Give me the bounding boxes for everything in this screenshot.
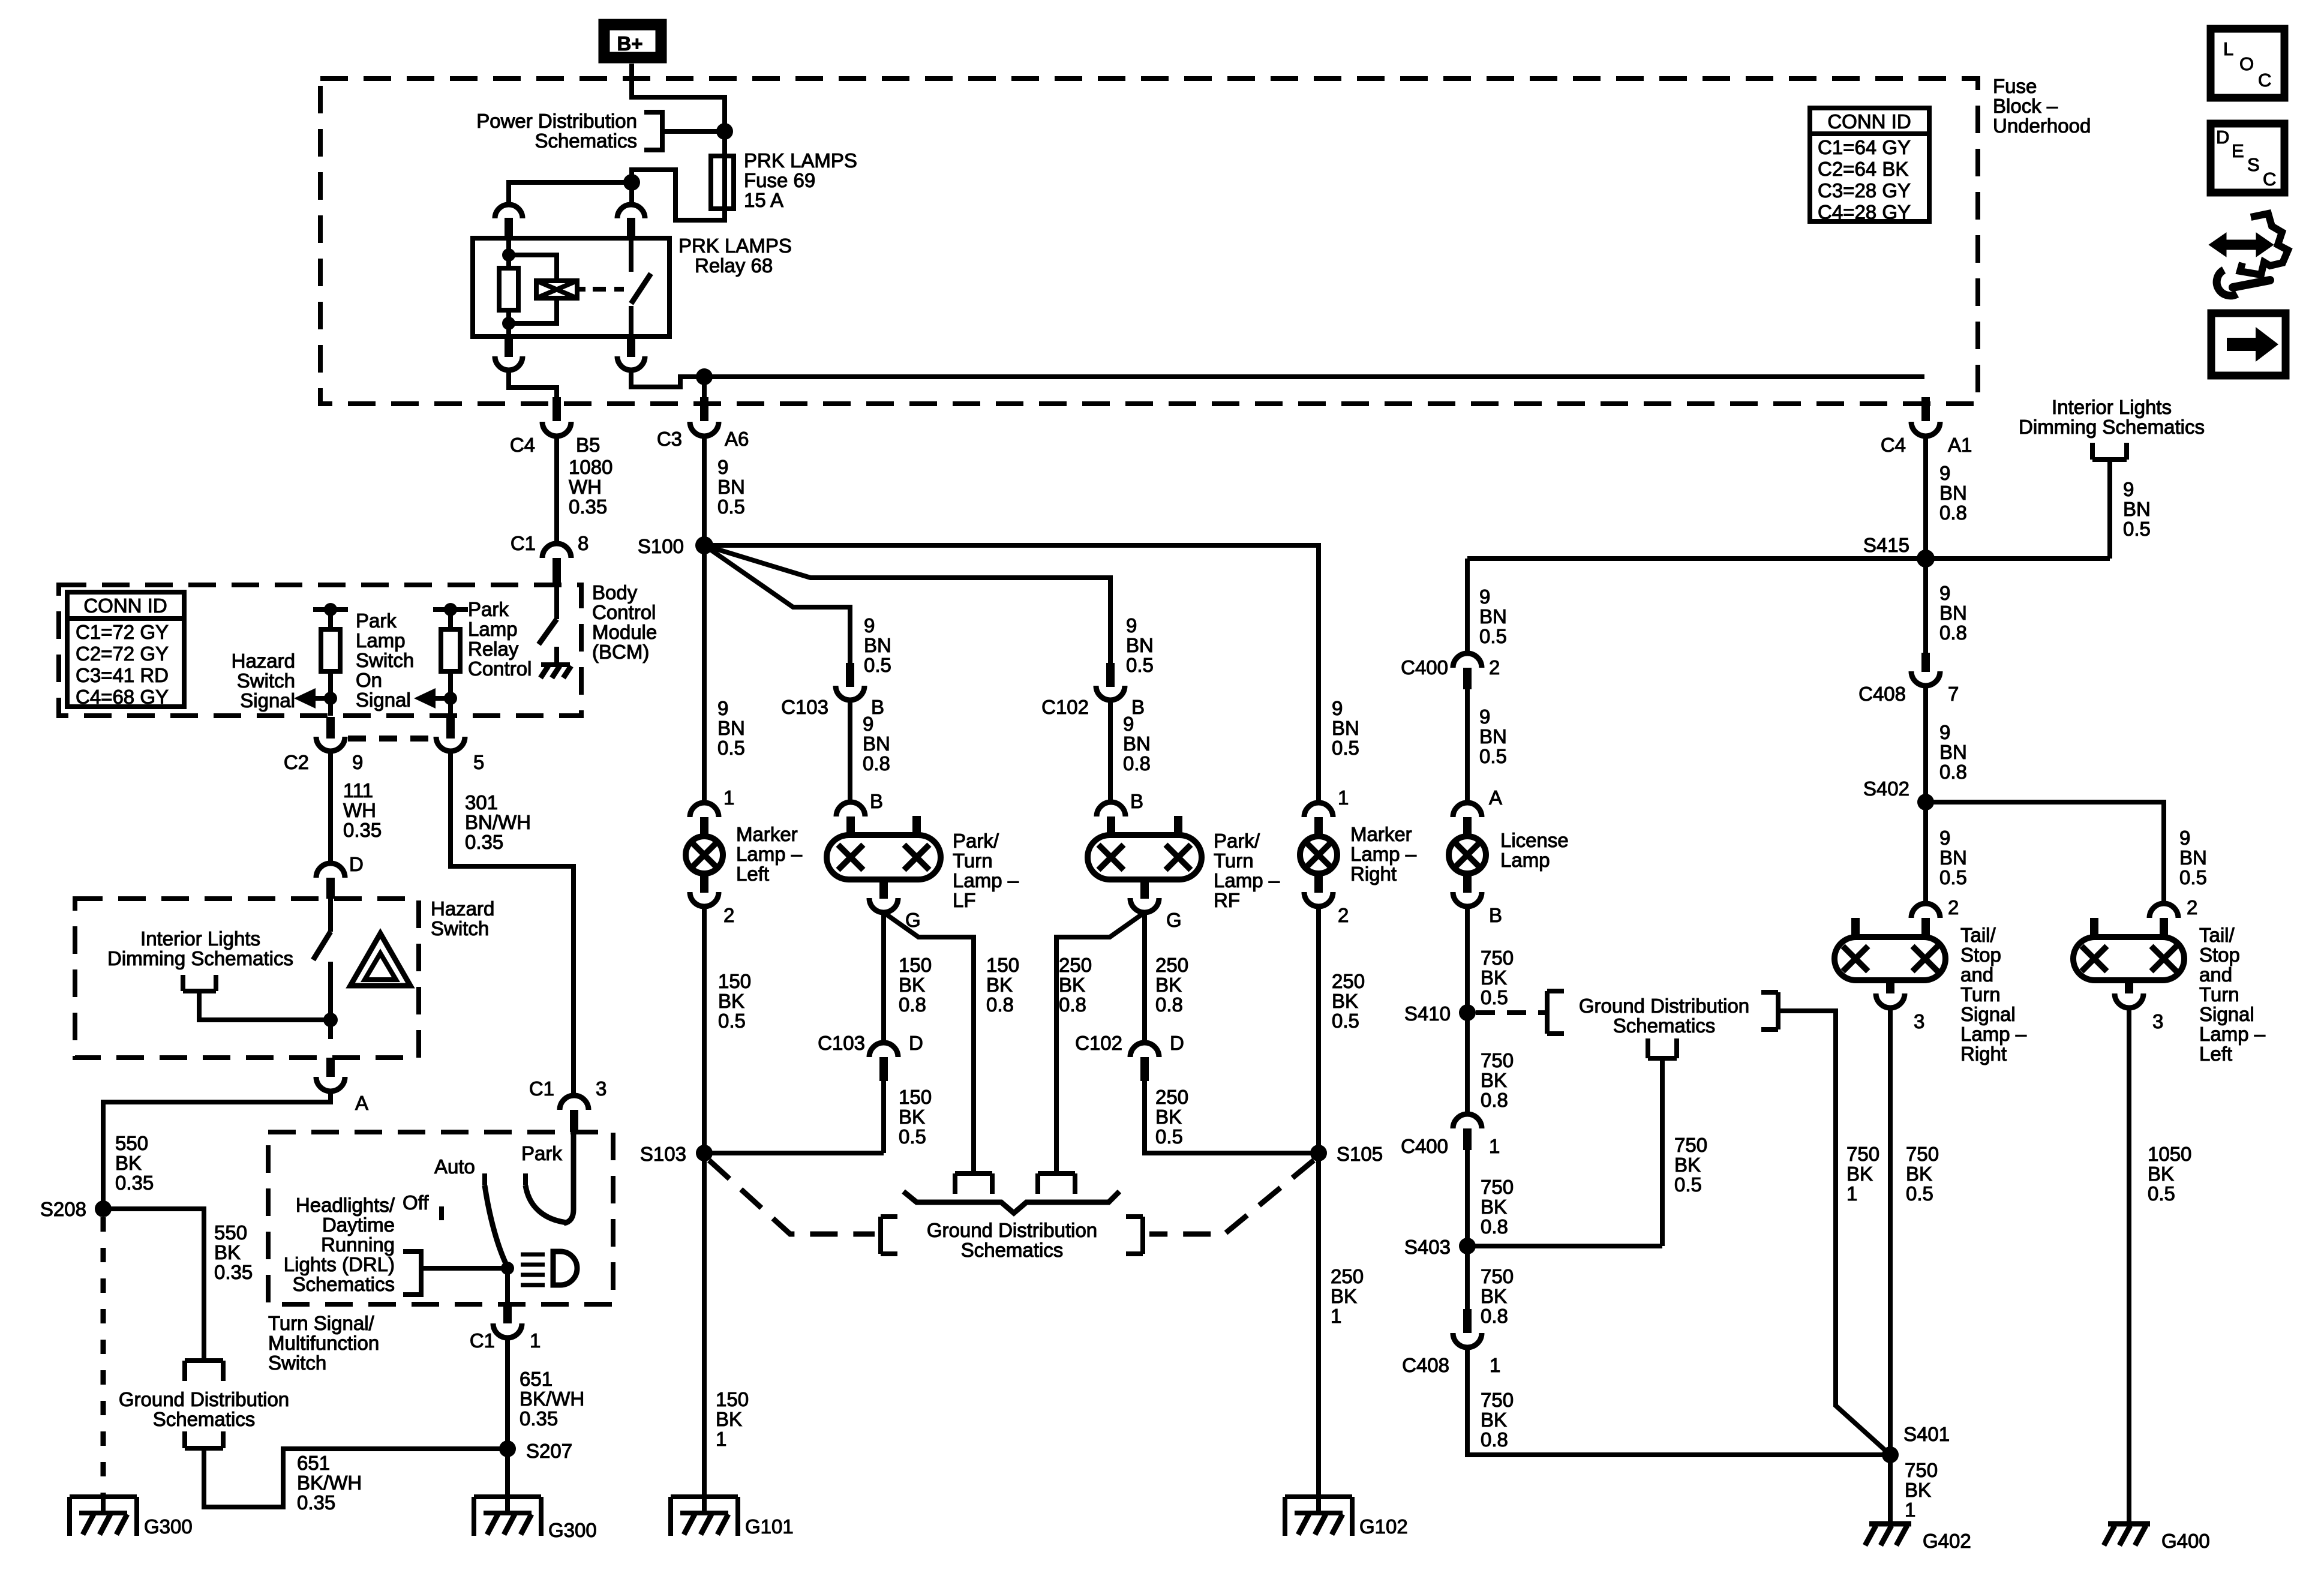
svg-text:0.5: 0.5 <box>1481 986 1508 1008</box>
wire 750 BK 0.8 to S401 <box>1467 1347 1890 1455</box>
svg-text:1: 1 <box>530 1329 541 1352</box>
svg-text:Ground Distribution: Ground Distribution <box>119 1388 289 1410</box>
node hazard signal tap <box>324 692 337 705</box>
dashed reference wire from S410 <box>1476 1010 1545 1015</box>
node S105 <box>1310 1145 1327 1161</box>
svg-text:Schematics: Schematics <box>535 130 637 152</box>
hazard switch blade wires <box>328 899 333 932</box>
wire 150 BK 1 to G101 <box>702 1153 707 1513</box>
svg-text:Schematics: Schematics <box>153 1408 256 1430</box>
svg-text:0.5: 0.5 <box>1479 745 1507 767</box>
svg-text:BK: BK <box>1481 1196 1507 1218</box>
svg-text:Park/: Park/ <box>953 830 999 852</box>
svg-text:A6: A6 <box>725 428 749 450</box>
svg-text:C1=64 GY: C1=64 GY <box>1818 136 1911 158</box>
svg-text:0.35: 0.35 <box>465 831 503 853</box>
connector C3 pin A6 (fuse block bottom) <box>700 397 708 421</box>
ground distribution terminal (input prongs) <box>185 1361 223 1381</box>
svg-text:Turn Signal/: Turn Signal/ <box>268 1312 375 1334</box>
svg-text:Lamp: Lamp <box>468 618 518 640</box>
BCM relay control switch blade <box>539 619 557 644</box>
svg-text:Module: Module <box>592 621 657 643</box>
svg-text:BN: BN <box>1126 634 1154 656</box>
wire C1/3 into park contact <box>564 1132 574 1223</box>
svg-text:750: 750 <box>1481 1176 1514 1198</box>
node S403 <box>1459 1238 1476 1254</box>
svg-text:Turn: Turn <box>2199 983 2239 1005</box>
svg-text:A: A <box>1489 786 1502 809</box>
BCM park-lamp pull-up supply bar <box>433 607 468 612</box>
svg-text:301: 301 <box>465 791 498 813</box>
svg-text:Dimming Schematics: Dimming Schematics <box>2019 416 2205 438</box>
svg-text:D: D <box>1170 1032 1184 1054</box>
connector C1 pin 3 (headlamp switch top) <box>560 1095 588 1110</box>
svg-text:BK: BK <box>716 1408 742 1430</box>
svg-text:9: 9 <box>1332 697 1343 719</box>
svg-text:0.8: 0.8 <box>1939 622 1967 644</box>
svg-text:C2: C2 <box>284 751 309 773</box>
relay switch blade <box>631 274 651 304</box>
dashed wire S208 to G300 <box>101 1217 106 1497</box>
svg-text:0.5: 0.5 <box>899 1125 926 1148</box>
svg-text:C1: C1 <box>470 1329 495 1352</box>
svg-text:C1: C1 <box>511 532 536 554</box>
svg-text:BK: BK <box>1481 1069 1507 1091</box>
dashed reference wire from S103 <box>709 1160 875 1234</box>
svg-text:G102: G102 <box>1359 1515 1408 1538</box>
svg-text:3: 3 <box>596 1077 606 1100</box>
svg-text:RF: RF <box>1214 889 1240 911</box>
off position contact <box>439 1206 444 1220</box>
wire 250 BK 1 to G102 <box>1316 1153 1321 1513</box>
svg-text:BK: BK <box>1481 1409 1507 1431</box>
svg-text:0.5: 0.5 <box>1155 1125 1183 1148</box>
svg-text:0.5: 0.5 <box>2179 866 2207 888</box>
svg-text:750: 750 <box>1846 1143 1879 1165</box>
svg-text:Switch: Switch <box>237 670 295 692</box>
ground distribution prong terminal (RF) <box>1038 1173 1075 1194</box>
svg-text:C4: C4 <box>510 434 535 456</box>
svg-text:250: 250 <box>1332 970 1365 992</box>
connector marker lamp left pin 1 <box>690 803 719 817</box>
svg-text:250: 250 <box>1059 954 1092 976</box>
wire 750 BK 0.8 S410 to C400 <box>1465 1013 1470 1114</box>
lamp license <box>1449 836 1486 873</box>
lamp tail/stop left (dual filament) <box>2073 937 2184 980</box>
wire S100 branch to C103 (LF) <box>704 545 850 663</box>
svg-text:0.8: 0.8 <box>1481 1428 1508 1451</box>
svg-text:Relay 68: Relay 68 <box>695 254 773 277</box>
svg-text:L: L <box>2223 38 2233 59</box>
svg-text:C: C <box>2263 169 2276 190</box>
svg-text:0.8: 0.8 <box>1059 993 1086 1016</box>
svg-text:BK: BK <box>1332 990 1358 1012</box>
lamp marker left <box>686 836 723 873</box>
svg-text:LF: LF <box>953 889 976 911</box>
svg-text:1080: 1080 <box>569 456 612 478</box>
svg-text:750: 750 <box>1481 1389 1514 1411</box>
svg-text:PRK LAMPS: PRK LAMPS <box>744 149 857 172</box>
svg-text:S207: S207 <box>526 1440 572 1462</box>
svg-text:Signal: Signal <box>2199 1003 2254 1025</box>
svg-text:BK: BK <box>986 974 1013 996</box>
svg-text:9: 9 <box>864 614 875 637</box>
svg-text:BN: BN <box>1939 846 1967 869</box>
relay coil (X box) <box>536 281 577 298</box>
ground G101 <box>671 1497 738 1536</box>
svg-text:Ground Distribution: Ground Distribution <box>927 1219 1097 1241</box>
svg-text:0.35: 0.35 <box>520 1407 558 1430</box>
svg-text:9: 9 <box>1939 462 1950 484</box>
wire B+ to fuse <box>632 64 725 156</box>
connector park/turn LF pin G <box>879 879 888 899</box>
connector pin relay switch top <box>617 205 645 218</box>
svg-text:Lamp –: Lamp – <box>736 843 803 865</box>
wire fuse output to relay pins <box>632 170 725 220</box>
svg-text:750: 750 <box>1481 947 1514 969</box>
svg-text:BN: BN <box>864 634 891 656</box>
wire to resistor <box>328 610 333 716</box>
svg-text:Hazard: Hazard <box>232 650 295 672</box>
svg-text:Lamp –: Lamp – <box>953 869 1019 891</box>
svg-text:9: 9 <box>2179 827 2190 849</box>
connector C103 pin B <box>846 663 854 687</box>
svg-text:S208: S208 <box>40 1198 86 1220</box>
svg-text:9: 9 <box>717 456 728 478</box>
svg-text:O: O <box>2239 53 2254 74</box>
svg-text:Block –: Block – <box>1993 95 2058 117</box>
svg-text:S402: S402 <box>1863 778 1909 800</box>
connector tail lamp left pin 2 <box>2149 903 2178 918</box>
svg-text:Relay: Relay <box>468 638 519 660</box>
svg-text:S103: S103 <box>640 1143 686 1165</box>
wire 150 BK 0.5 to S103 <box>702 906 707 1167</box>
connector marker lamp right pin 2 <box>1314 873 1323 893</box>
svg-text:BN: BN <box>1479 725 1507 748</box>
svg-text:E: E <box>2232 140 2244 161</box>
wire S100 to marker lamp right <box>704 545 1319 804</box>
svg-text:S105: S105 <box>1337 1143 1383 1165</box>
svg-text:C1: C1 <box>529 1077 554 1100</box>
wire S402 to tail lamp left <box>1926 802 2164 905</box>
svg-text:C1=72 GY: C1=72 GY <box>76 621 169 643</box>
svg-text:111: 111 <box>343 779 373 801</box>
node park signal tap <box>444 692 457 705</box>
svg-text:BK: BK <box>1906 1163 1932 1185</box>
svg-text:and: and <box>1960 963 1993 986</box>
wire S403 to bracket drop <box>1467 1244 1662 1248</box>
svg-text:BK: BK <box>1155 1106 1182 1128</box>
wire 111 WH 0.35 <box>328 751 333 863</box>
svg-text:BN: BN <box>717 717 745 739</box>
svg-text:Lamp –: Lamp – <box>1214 869 1280 891</box>
svg-text:Stop: Stop <box>2199 944 2240 966</box>
svg-text:B: B <box>870 790 883 812</box>
svg-text:Left: Left <box>736 863 769 885</box>
svg-text:0.35: 0.35 <box>297 1491 335 1514</box>
svg-text:150: 150 <box>716 1388 749 1410</box>
svg-text:(BCM): (BCM) <box>592 641 649 663</box>
svg-text:Park: Park <box>468 598 509 620</box>
svg-text:Marker: Marker <box>1350 823 1412 845</box>
connector C400 pin 2 <box>1453 653 1482 668</box>
svg-text:150: 150 <box>899 954 932 976</box>
svg-text:C3=41 RD: C3=41 RD <box>76 664 169 686</box>
connector license lamp pin A <box>1453 803 1482 817</box>
svg-text:Auto: Auto <box>434 1155 475 1178</box>
stub turn signal feed LF <box>912 816 921 836</box>
svg-text:0.8: 0.8 <box>1155 993 1183 1016</box>
reference bracket (right end) <box>1761 992 1778 1029</box>
stub tail left feed <box>2090 918 2098 938</box>
svg-text:BK/WH: BK/WH <box>520 1388 584 1410</box>
node hazard switch output <box>323 1013 338 1027</box>
svg-text:C2=64 BK: C2=64 BK <box>1818 158 1908 180</box>
svg-text:Off: Off <box>403 1191 429 1214</box>
lamp marker right <box>1300 836 1337 873</box>
connector park/turn LF pin B <box>836 802 865 816</box>
wire fused feed to relay coil pin <box>509 182 632 205</box>
svg-text:BN: BN <box>1332 717 1359 739</box>
wire C400 column from bus <box>1465 559 1470 653</box>
svg-text:1: 1 <box>1905 1499 1915 1521</box>
resistor relay suppression <box>499 268 518 310</box>
svg-text:9: 9 <box>717 697 728 719</box>
connector park/turn RF pin G <box>1140 879 1149 899</box>
connector hazard switch pin A <box>326 1058 335 1077</box>
svg-text:CONN ID: CONN ID <box>1827 110 1911 133</box>
CONN ID table (fuse block) <box>1810 108 1929 221</box>
fuse PRK LAMPS Fuse 69 15 A <box>722 156 727 209</box>
svg-text:S: S <box>2247 154 2260 175</box>
connector hazard switch pin D <box>316 863 345 878</box>
wire 1050 BK 0.5 to G400 <box>2127 1008 2131 1524</box>
svg-text:D: D <box>2216 127 2229 148</box>
svg-text:BN: BN <box>863 733 890 755</box>
svg-text:C400: C400 <box>1401 1135 1448 1157</box>
svg-text:250: 250 <box>1155 1086 1188 1108</box>
svg-text:9: 9 <box>863 713 873 735</box>
svg-text:1: 1 <box>1331 1305 1341 1327</box>
forward arrow icon box <box>2211 313 2286 376</box>
svg-text:B: B <box>1489 904 1502 926</box>
svg-text:C4: C4 <box>1881 434 1906 456</box>
wire 750 BK 0.8 to S403 <box>1465 1150 1470 1260</box>
connector tail lamp right pin 2 <box>1911 903 1940 918</box>
wire S415 bus <box>1467 556 2110 561</box>
svg-text:0.5: 0.5 <box>2123 518 2151 540</box>
arrow park lamp switch on signal <box>434 696 451 701</box>
LOC icon box <box>2211 29 2284 98</box>
wire 750 BK 0.5 to S401 <box>1888 1008 1893 1455</box>
svg-text:0.5: 0.5 <box>717 737 745 759</box>
svg-text:S401: S401 <box>1903 1423 1950 1445</box>
svg-text:Turn: Turn <box>1214 849 1254 872</box>
svg-text:G300: G300 <box>144 1515 193 1538</box>
svg-text:G101: G101 <box>745 1515 794 1538</box>
svg-text:C103: C103 <box>781 696 828 718</box>
svg-text:250: 250 <box>1155 954 1188 976</box>
DRL reference bracket <box>403 1251 503 1295</box>
svg-text:0.5: 0.5 <box>1332 737 1359 759</box>
svg-text:BK/WH: BK/WH <box>297 1472 362 1494</box>
wire relay coil bottom to C4 <box>509 370 557 397</box>
svg-text:BK: BK <box>899 1106 925 1128</box>
headlamp symbol <box>521 1254 545 1285</box>
svg-text:C102: C102 <box>1075 1032 1122 1054</box>
dashed connector body link <box>348 736 436 742</box>
svg-text:9: 9 <box>2123 478 2134 500</box>
wire C103/D leg into S103 <box>704 1151 884 1155</box>
svg-text:BN: BN <box>717 476 745 498</box>
svg-text:750: 750 <box>1481 1049 1514 1071</box>
wire S100 down to marker lamp left <box>702 545 707 804</box>
wire S208 to ground distribution <box>103 1209 204 1361</box>
svg-text:BN: BN <box>1479 605 1507 628</box>
connector pin relay coil bottom <box>505 337 513 357</box>
svg-text:0.8: 0.8 <box>863 752 890 775</box>
node S401 <box>1882 1446 1899 1463</box>
wire 750 BK 0.5 to S410 <box>1465 906 1470 1029</box>
svg-text:2: 2 <box>2187 896 2197 918</box>
svg-text:D: D <box>349 853 364 875</box>
wire 9 BN 0.5 to S100 <box>702 436 707 545</box>
svg-text:WH: WH <box>569 476 602 498</box>
svg-text:and: and <box>2199 963 2232 986</box>
svg-text:Hazard: Hazard <box>431 897 494 920</box>
svg-text:Park: Park <box>521 1142 562 1164</box>
resistor park lamp switch signal pull-up <box>441 629 460 671</box>
svg-text:Park: Park <box>356 610 397 632</box>
svg-text:Switch: Switch <box>356 649 414 671</box>
svg-text:0.8: 0.8 <box>986 993 1014 1016</box>
svg-text:2: 2 <box>1489 656 1500 679</box>
svg-text:BK: BK <box>1331 1285 1357 1307</box>
svg-text:BK: BK <box>718 990 744 1012</box>
svg-text:Switch: Switch <box>431 917 489 939</box>
svg-text:A: A <box>355 1092 368 1114</box>
connector tail lamp right pin 3 <box>1886 980 1894 993</box>
svg-text:0.5: 0.5 <box>1332 1010 1359 1032</box>
node S208 <box>95 1200 112 1217</box>
svg-text:550: 550 <box>115 1132 148 1154</box>
lamp park/turn LF (dual filament) <box>827 835 941 879</box>
svg-text:3: 3 <box>2152 1010 2163 1032</box>
relay coil branch wires <box>509 238 557 337</box>
wire 301 BN/WH 0.35 <box>451 751 574 1095</box>
ground distribution prong terminal (LF) <box>955 1173 992 1194</box>
svg-text:BN: BN <box>2123 498 2151 520</box>
svg-text:5: 5 <box>473 751 484 773</box>
svg-text:Left: Left <box>2199 1043 2232 1065</box>
ground G400 <box>2108 1521 2150 1527</box>
svg-text:9: 9 <box>1123 713 1134 735</box>
svg-text:0.5: 0.5 <box>2148 1182 2175 1205</box>
svg-text:CONN ID: CONN ID <box>83 595 167 617</box>
svg-text:8: 8 <box>578 532 588 554</box>
connector marker lamp left pin 2 <box>700 873 708 893</box>
svg-text:Lamp: Lamp <box>356 629 406 652</box>
svg-text:Schematics: Schematics <box>1613 1014 1716 1037</box>
svg-text:1050: 1050 <box>2148 1143 2191 1165</box>
ground G300 (right) <box>474 1497 541 1536</box>
svg-text:1: 1 <box>1338 786 1349 809</box>
svg-text:Interior Lights: Interior Lights <box>140 927 260 950</box>
svg-text:0.35: 0.35 <box>115 1172 154 1194</box>
connector park/turn RF pin B <box>1097 802 1125 816</box>
svg-text:G400: G400 <box>2161 1530 2210 1552</box>
reference bracket left <box>881 1217 897 1254</box>
svg-text:Lamp –: Lamp – <box>2199 1023 2266 1045</box>
svg-text:C3: C3 <box>657 428 682 450</box>
svg-text:750: 750 <box>1674 1134 1707 1156</box>
node S100 <box>695 536 713 554</box>
svg-text:BK: BK <box>1155 974 1182 996</box>
node hazard pull-up <box>324 603 337 616</box>
svg-text:750: 750 <box>1905 1459 1938 1481</box>
svg-text:C3=28 GY: C3=28 GY <box>1818 179 1911 202</box>
svg-text:G: G <box>1166 909 1182 931</box>
svg-text:S403: S403 <box>1404 1236 1451 1258</box>
svg-text:Turn: Turn <box>953 849 993 872</box>
BCM relay control output wire <box>554 647 559 665</box>
wire 550 BK 0.35 to S208 <box>103 1091 331 1208</box>
svg-text:BK: BK <box>115 1152 142 1174</box>
connector pin relay switch bottom <box>627 337 635 357</box>
connector C2 pin 5 (BCM bottom) <box>446 717 455 739</box>
wire 651 BK/WH 0.35 from ground distribution to S207 <box>204 1448 508 1507</box>
svg-text:2: 2 <box>1338 904 1349 926</box>
svg-text:9: 9 <box>1939 721 1950 743</box>
svg-text:G300: G300 <box>548 1519 597 1541</box>
svg-text:Right: Right <box>1960 1043 2007 1065</box>
ground distribution output bracket <box>1648 1038 1677 1246</box>
svg-text:C2=72 GY: C2=72 GY <box>76 643 169 665</box>
ground distribution underbrace <box>903 1191 1119 1213</box>
svg-text:0.35: 0.35 <box>569 496 607 518</box>
svg-text:C103: C103 <box>818 1032 865 1054</box>
svg-text:BN: BN <box>1939 602 1967 624</box>
svg-text:9: 9 <box>1479 586 1490 608</box>
svg-text:9: 9 <box>352 751 363 773</box>
svg-text:Marker: Marker <box>736 823 798 845</box>
connector C4 pin B5 (fuse block bottom) <box>553 397 561 421</box>
svg-text:BN: BN <box>1939 482 1967 504</box>
node bus to C3 branch <box>696 368 713 385</box>
hazard warning triangle (inner) <box>365 953 396 980</box>
svg-text:BK: BK <box>899 974 925 996</box>
node coil bottom <box>502 317 515 330</box>
svg-text:Lights (DRL): Lights (DRL) <box>284 1253 395 1275</box>
node DRL tap <box>501 1262 514 1275</box>
wire 9 BN 0.8 to S415 <box>1923 436 1928 559</box>
svg-text:C102: C102 <box>1041 696 1089 718</box>
svg-text:S415: S415 <box>1863 534 1909 556</box>
svg-text:9: 9 <box>1126 614 1137 637</box>
svg-text:WH: WH <box>343 799 376 821</box>
svg-text:C408: C408 <box>1858 683 1906 705</box>
relay switch contact wires <box>629 238 633 337</box>
svg-text:BK: BK <box>1846 1163 1873 1185</box>
svg-text:C408: C408 <box>1402 1354 1449 1376</box>
svg-text:D: D <box>909 1032 923 1054</box>
svg-text:0.5: 0.5 <box>718 1010 746 1032</box>
connector C408 pin 1 <box>1463 1309 1472 1333</box>
svg-text:BN: BN <box>1123 733 1151 755</box>
svg-text:Schematics: Schematics <box>292 1273 395 1295</box>
svg-text:Signal: Signal <box>1960 1003 2016 1025</box>
svg-text:Lamp –: Lamp – <box>1960 1023 2027 1045</box>
